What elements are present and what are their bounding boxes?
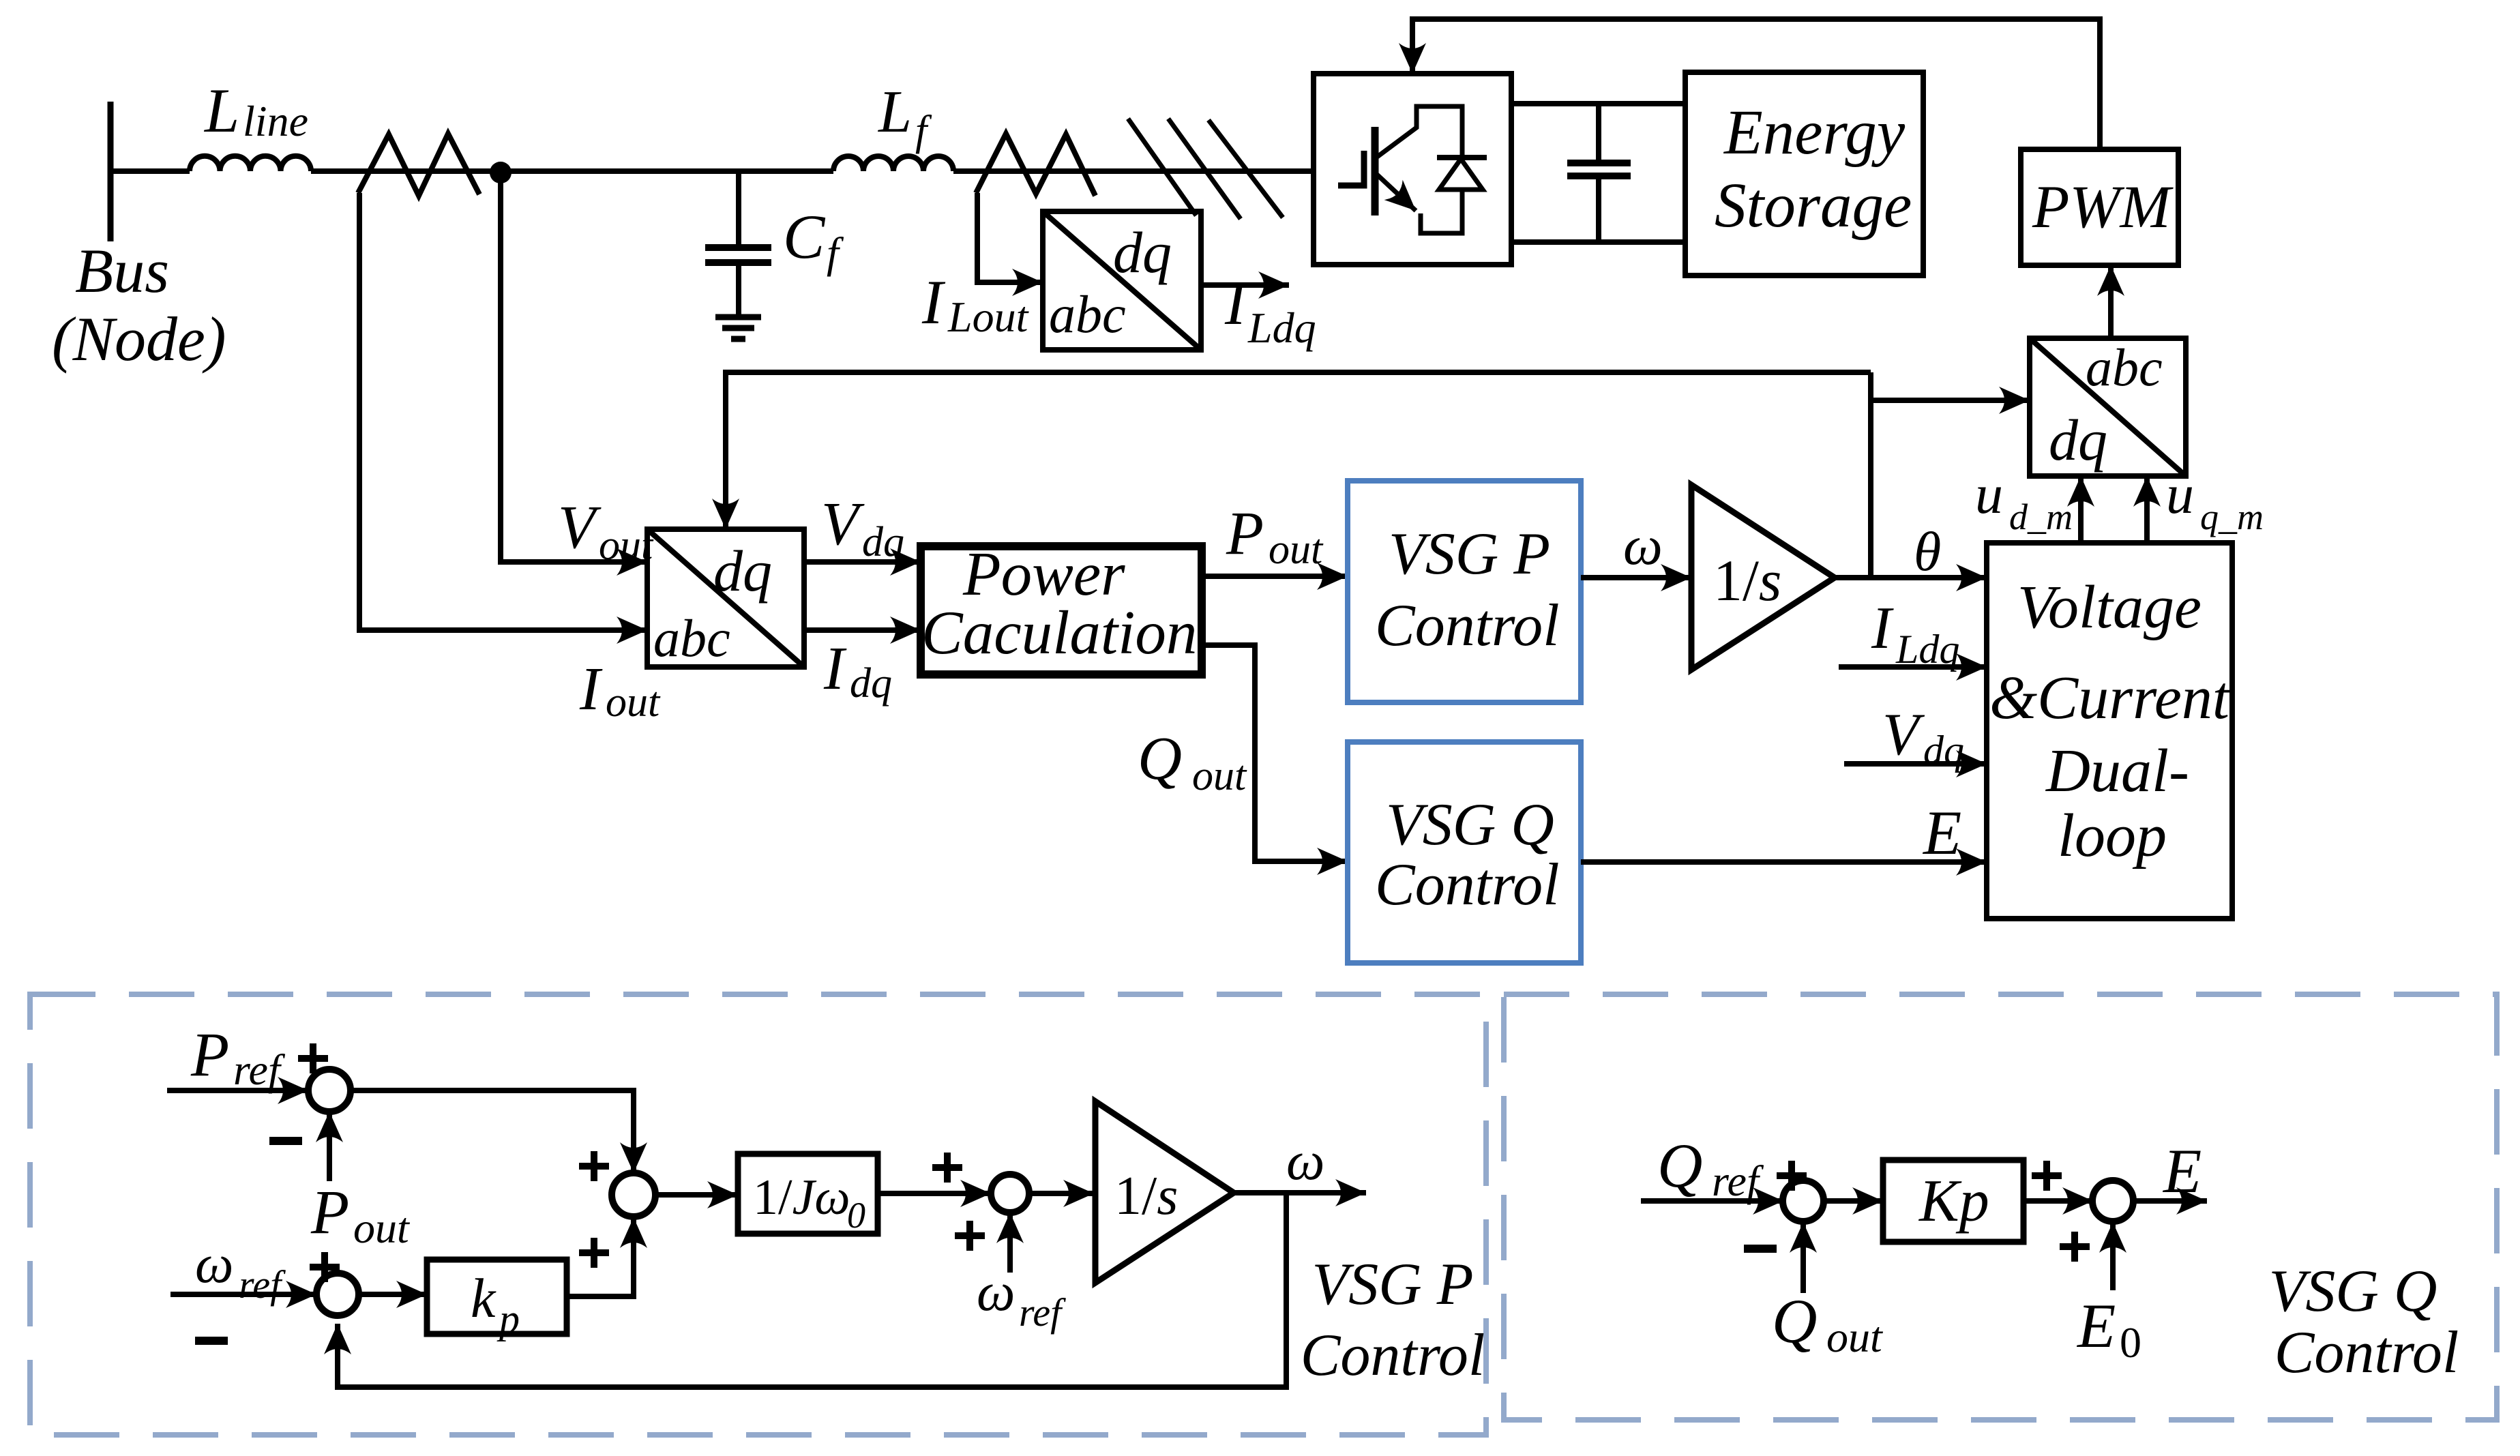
svg-text:V: V <box>821 490 865 558</box>
wire u_q_m arrow <box>2144 476 2150 543</box>
svg-text:P: P <box>190 1020 229 1089</box>
svg-text:ref: ref <box>1019 1290 1066 1335</box>
transistor Q1 channel bar <box>1372 127 1379 216</box>
svg-text:dq: dq <box>850 660 892 707</box>
PWM box <box>2021 149 2178 265</box>
summing junction S1 <box>308 1069 351 1112</box>
wire Q_out elbow <box>1202 645 1348 861</box>
wire L_f to inverter <box>953 168 1314 174</box>
transistor Q1 collector path <box>1376 106 1462 158</box>
svg-text:dq: dq <box>2049 407 2107 473</box>
wire theta to dual-loop <box>1835 575 1987 580</box>
svg-text:Q: Q <box>1138 725 1182 792</box>
wire 1/Jw0 to S3 <box>878 1191 991 1196</box>
plus S1 <box>298 1043 328 1073</box>
dashed panel VSG P Control detail <box>30 994 1486 1435</box>
capacitor C_f lead <box>736 171 741 245</box>
svg-text:PWM: PWM <box>2032 174 2174 241</box>
DC link capacitor <box>1596 104 1601 160</box>
svg-text:1/s: 1/s <box>1114 1166 1178 1226</box>
minus S1 <box>269 1137 302 1145</box>
bus bar (Bus/Node) <box>108 102 114 241</box>
wire E0 up into S6 <box>2110 1222 2116 1290</box>
svg-text:out: out <box>606 679 661 726</box>
wire u_d_m arrow <box>2078 476 2084 543</box>
svg-text:0: 0 <box>847 1195 865 1236</box>
transistor Q1 gate lead <box>1338 151 1364 185</box>
plus S6 upper <box>2032 1161 2062 1191</box>
wire I_dq to power calc <box>804 627 921 633</box>
current sensor zigzag 2 <box>976 134 1095 196</box>
Power Caculation box <box>921 546 1202 674</box>
wire S5 to Kp <box>1824 1198 1883 1204</box>
svg-text:ref: ref <box>233 1045 286 1094</box>
svg-text:k: k <box>471 1267 496 1329</box>
node junction <box>490 162 512 183</box>
wire P_out feedback arrow <box>327 1112 332 1181</box>
minus S5 <box>1744 1245 1777 1253</box>
svg-text:VSG Q: VSG Q <box>2269 1258 2437 1324</box>
svg-text:Energy: Energy <box>1723 98 1906 168</box>
svg-text:ω: ω <box>977 1262 1015 1322</box>
minus S4 <box>195 1337 228 1345</box>
wire theta junction vertical <box>1868 372 1873 578</box>
summing junction S5 <box>1783 1180 1824 1221</box>
wire DC bus bottom <box>1511 239 1685 245</box>
wire S2 to 1/Jw0 <box>655 1192 738 1198</box>
svg-text:VSG P: VSG P <box>1311 1251 1473 1318</box>
svg-text:Control: Control <box>1301 1322 1485 1388</box>
ground <box>715 314 761 321</box>
svg-text:C: C <box>783 202 826 271</box>
svg-text:ref: ref <box>1712 1157 1764 1205</box>
transform block dq/abc (grid V/I) <box>647 529 804 667</box>
svg-text:θ: θ <box>1914 520 1941 582</box>
svg-text:Q: Q <box>1657 1131 1702 1200</box>
svg-text:Ldq: Ldq <box>1895 627 1959 672</box>
svg-text:Bus: Bus <box>75 236 169 306</box>
svg-text:V: V <box>1882 702 1925 768</box>
svg-text:Kp: Kp <box>1918 1168 1989 1234</box>
wire omega_ref input line <box>171 1292 316 1297</box>
svg-text:ω: ω <box>195 1234 233 1294</box>
wire E to dual-loop <box>1581 859 1987 865</box>
svg-text:Control: Control <box>1375 852 1560 918</box>
svg-text:p: p <box>496 1296 520 1341</box>
svg-text:out: out <box>1192 753 1247 799</box>
wire Q_ref input <box>1641 1198 1783 1204</box>
wire DC bus top <box>1511 101 1685 106</box>
wire I_Ldq stub into dual-loop <box>1839 664 1987 670</box>
wire I_Ldq output <box>1201 282 1289 288</box>
three-phase slashes <box>1128 119 1196 216</box>
svg-text:Storage: Storage <box>1715 170 1912 241</box>
gain block 1/Jw0 <box>738 1154 878 1234</box>
wire feedback loop omega <box>338 1193 1286 1387</box>
svg-text:&Current: &Current <box>1989 664 2231 732</box>
svg-text:ω: ω <box>1286 1131 1324 1191</box>
integrator 1/s triangle (panel) <box>1095 1101 1234 1283</box>
gain block Kp <box>1883 1160 2024 1242</box>
svg-text:P: P <box>310 1177 349 1247</box>
svg-text:f: f <box>827 228 844 277</box>
wire I_out tap <box>359 193 647 630</box>
wire L_line to L_f (main AC line) <box>311 168 833 174</box>
svg-text:E: E <box>2076 1291 2116 1361</box>
svg-text:Q: Q <box>1772 1286 1817 1356</box>
plus S4 <box>310 1252 340 1282</box>
dashed panel VSG Q Control detail <box>1504 994 2497 1420</box>
wire Q_out feedback arrow <box>1800 1222 1806 1293</box>
diode D1 cathode bar <box>1437 155 1487 160</box>
wire V_dq to power calc <box>804 559 921 565</box>
svg-text:dq: dq <box>1113 220 1172 285</box>
svg-text:abc: abc <box>653 608 730 668</box>
svg-text:E: E <box>1922 798 1961 867</box>
svg-text:Dual-: Dual- <box>2045 737 2189 805</box>
svg-text:VSG P: VSG P <box>1389 521 1550 587</box>
svg-text:out: out <box>353 1204 411 1252</box>
svg-text:line: line <box>243 97 308 145</box>
svg-text:0: 0 <box>2120 1318 2141 1367</box>
svg-text:d_m: d_m <box>2009 496 2073 537</box>
Energy Storage box <box>1685 72 1923 276</box>
svg-text:abc: abc <box>1049 284 1126 344</box>
svg-text:f: f <box>915 108 932 154</box>
VSG P Control box <box>1348 481 1581 702</box>
svg-text:Control: Control <box>2274 1320 2459 1386</box>
wire omega output <box>1234 1190 1366 1195</box>
svg-text:Ldq: Ldq <box>1247 303 1316 352</box>
svg-text:dq: dq <box>713 538 772 604</box>
svg-text:(Node): (Node) <box>52 304 226 374</box>
svg-text:1/Jω: 1/Jω <box>753 1170 850 1225</box>
svg-text:I: I <box>921 267 946 337</box>
wire PWM feedback loop with arrow into inverter <box>1412 19 2100 149</box>
svg-text:q_m: q_m <box>2200 496 2264 537</box>
plus S6 lower <box>2060 1232 2090 1262</box>
integrator 1/s triangle <box>1691 485 1835 670</box>
svg-text:Control: Control <box>1375 593 1560 659</box>
wire omega to integrator <box>1581 575 1691 580</box>
plus S3 upper <box>932 1153 962 1183</box>
svg-text:L: L <box>877 79 912 145</box>
inductor L_f <box>833 156 953 171</box>
svg-text:I: I <box>1871 595 1894 662</box>
svg-text:out: out <box>1826 1313 1884 1361</box>
svg-text:VSG Q: VSG Q <box>1386 792 1554 858</box>
wire omega_ref up into S3 <box>1007 1213 1013 1273</box>
svg-text:Voltage: Voltage <box>2017 574 2202 641</box>
inverter box <box>1314 74 1511 265</box>
capacitor C_f plates <box>705 244 771 251</box>
svg-text:V: V <box>558 494 602 561</box>
wire Kp to S6 <box>2024 1198 2093 1204</box>
transistor Q1 emitter with arrow <box>1376 174 1416 211</box>
svg-text:L: L <box>203 76 239 145</box>
summing junction S2 <box>612 1173 655 1217</box>
svg-text:dq: dq <box>1923 728 1964 773</box>
diode D1 lower lead and bottom rail <box>1421 190 1462 233</box>
svg-text:I: I <box>579 655 603 723</box>
wire theta branch into abc/dq <box>1871 398 2030 403</box>
svg-text:Caculation: Caculation <box>921 598 1197 667</box>
diode D1 triangle <box>1439 159 1483 190</box>
svg-text:I: I <box>1224 268 1249 338</box>
svg-text:loop: loop <box>2058 802 2167 870</box>
plus S2 upper <box>579 1151 609 1181</box>
svg-text:Lout: Lout <box>947 293 1030 341</box>
current sensor zigzag 1 <box>358 134 479 196</box>
plus S3 lower <box>955 1221 985 1251</box>
svg-text:ω: ω <box>1623 514 1663 576</box>
wire V_dq stub into dual-loop <box>1844 761 1987 767</box>
svg-text:u: u <box>1975 463 2003 525</box>
wire kp to S2 elbow <box>567 1217 634 1296</box>
svg-text:u: u <box>2166 463 2194 525</box>
svg-text:abc: abc <box>2086 338 2163 397</box>
wire S1 to S2 elbow <box>351 1090 634 1173</box>
svg-text:out: out <box>599 522 654 569</box>
svg-text:dq: dq <box>862 519 904 565</box>
wire S3 to integrator <box>1029 1191 1094 1196</box>
wire bus to L_line <box>110 168 190 174</box>
summing junction S3 <box>991 1174 1029 1213</box>
summing junction S4 <box>316 1273 359 1316</box>
wire S4 to kp <box>359 1292 427 1297</box>
wire V_out tap <box>501 173 647 562</box>
gain block kp <box>427 1260 567 1334</box>
svg-text:P: P <box>1226 500 1264 567</box>
plus S5 <box>1777 1161 1807 1191</box>
svg-text:I: I <box>823 635 847 702</box>
Voltage & Current Dual-loop box <box>1987 543 2232 919</box>
wire I_Lout tap <box>977 193 1043 282</box>
wire P_ref input <box>167 1088 308 1093</box>
wire E output <box>2133 1198 2207 1204</box>
transform block abc/dq (modulation) <box>2030 338 2186 476</box>
svg-text:1/s: 1/s <box>1713 548 1781 613</box>
wire abc/dq to PWM <box>2108 265 2114 338</box>
svg-text:E: E <box>2162 1136 2202 1206</box>
transform block dq/abc (inductor current) <box>1043 211 1201 350</box>
svg-text:out: out <box>1269 526 1324 573</box>
summing junction S6 <box>2092 1180 2133 1221</box>
wire P_out <box>1202 574 1348 579</box>
wire theta feedback horizontal <box>726 372 1871 529</box>
svg-text:ref: ref <box>239 1262 286 1307</box>
plus S2 lower <box>579 1238 609 1268</box>
inductor L_line <box>190 156 311 171</box>
VSG Q Control box <box>1348 742 1581 963</box>
